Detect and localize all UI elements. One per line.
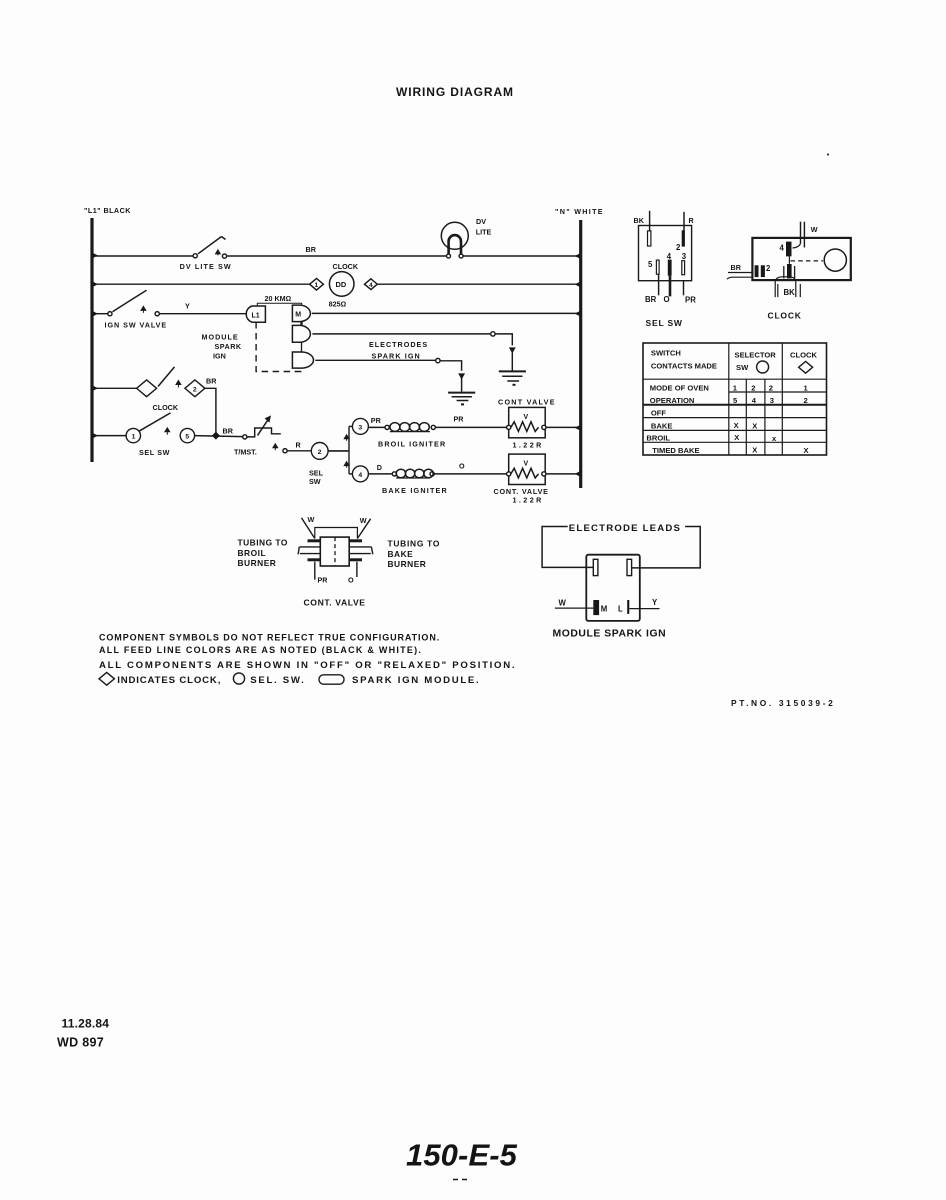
- notes: [99, 633, 516, 686]
- svg-text:SEL SW: SEL SW: [646, 318, 683, 328]
- label SEL SW below contact 2: [309, 469, 324, 487]
- svg-text:BURNER: BURNER: [388, 559, 427, 569]
- svg-text:1: 1: [132, 434, 136, 441]
- dashed module boundary: [256, 322, 301, 372]
- sel sw blade: [139, 413, 171, 435]
- svg-text:BAKE: BAKE: [388, 549, 414, 559]
- note circle symbol: [233, 673, 244, 684]
- svg-text:Y: Y: [185, 302, 190, 311]
- svg-text:LITE: LITE: [476, 228, 492, 237]
- bake igniter coil: [368, 469, 448, 495]
- sel sw contact 1: [126, 428, 140, 442]
- fork arrow up (bake): [344, 462, 349, 468]
- svg-text:W: W: [559, 599, 567, 608]
- svg-text:Y: Y: [652, 598, 658, 607]
- cont valve 2: [494, 454, 549, 504]
- svg-text:1: 1: [804, 384, 809, 393]
- svg-text:IGN SW VALVE: IGN SW VALVE: [105, 321, 168, 330]
- svg-text:INDICATES CLOCK,: INDICATES CLOCK,: [117, 675, 221, 686]
- svg-text:2: 2: [766, 264, 771, 273]
- wire row4 left: [92, 387, 137, 389]
- electrode pin right: [627, 559, 632, 575]
- svg-text:PT.NO. 315039-2: PT.NO. 315039-2: [731, 698, 835, 708]
- junction dot: [212, 432, 220, 440]
- svg-text:4: 4: [752, 396, 757, 405]
- clock dial circle: [824, 249, 846, 271]
- switch DV LITE SW: [180, 237, 232, 272]
- svg-text:2: 2: [318, 449, 322, 456]
- wire electrode 2: [315, 358, 464, 391]
- wire row1 right: [463, 255, 581, 257]
- svg-text:M: M: [295, 312, 301, 319]
- sel sw contact 2: [311, 443, 328, 460]
- svg-text:BROIL IGNITER: BROIL IGNITER: [378, 440, 446, 449]
- dashed link to dial: [791, 260, 824, 262]
- fork arrow up (broil): [344, 435, 349, 441]
- svg-text:L1: L1: [252, 313, 260, 320]
- fork vertical: [348, 426, 350, 474]
- svg-text:X: X: [752, 446, 757, 455]
- svg-text:X: X: [734, 421, 739, 430]
- valve body: [320, 537, 349, 566]
- svg-text:TIMED BAKE: TIMED BAKE: [652, 446, 699, 455]
- cont valve 1: [498, 398, 556, 450]
- svg-text:W: W: [811, 225, 818, 234]
- svg-text:20 KMΩ: 20 KMΩ: [265, 294, 292, 303]
- pipe right: [349, 547, 373, 554]
- svg-text:BR: BR: [223, 427, 234, 436]
- wire M to N bus: [312, 312, 581, 314]
- wire row1 left: [92, 255, 193, 257]
- svg-text:O: O: [664, 295, 670, 304]
- wire to cont valve 2: [434, 473, 506, 475]
- svg-text:MODULE: MODULE: [202, 333, 239, 342]
- wire BR: [658, 274, 660, 295]
- svg-text:BROIL: BROIL: [238, 548, 267, 558]
- table column lines: [728, 343, 730, 455]
- svg-text:825Ω: 825Ω: [329, 300, 347, 309]
- svg-text:PR: PR: [454, 415, 465, 424]
- wire valve2 to bus: [546, 473, 581, 475]
- svg-text:T/MST.: T/MST.: [234, 448, 257, 457]
- svg-text:SWITCH: SWITCH: [651, 349, 681, 358]
- svg-text:W: W: [308, 515, 315, 524]
- wire Y module: [630, 608, 660, 610]
- svg-text:4: 4: [369, 282, 373, 289]
- clock contact diamond 2: [185, 380, 205, 397]
- svg-text:BROIL: BROIL: [646, 434, 670, 443]
- svg-text:CONT VALVE: CONT VALVE: [498, 398, 556, 407]
- wire 5 to junction: [195, 436, 243, 437]
- thermostat TMST: [234, 416, 281, 456]
- scan speck: [827, 153, 829, 155]
- terminal diamond 1: [310, 278, 324, 290]
- module pin M: [292, 305, 310, 322]
- module spark ign connector: [553, 555, 667, 640]
- svg-text:X: X: [734, 433, 739, 442]
- svg-text:SEL. SW.: SEL. SW.: [250, 675, 305, 686]
- svg-text:TUBING TO: TUBING TO: [388, 539, 441, 549]
- svg-text:11.28.84: 11.28.84: [62, 1017, 110, 1031]
- wire row5 left: [92, 435, 126, 437]
- svg-text:OFF: OFF: [651, 409, 667, 418]
- svg-text:3: 3: [358, 424, 362, 431]
- bus N white: [555, 207, 604, 488]
- wire row2 left: [92, 283, 310, 285]
- wire row1 middle: [227, 255, 447, 257]
- svg-text:D: D: [377, 463, 382, 472]
- svg-text:WD 897: WD 897: [57, 1036, 104, 1050]
- wire diamond2 down to row5: [205, 388, 216, 435]
- svg-text:SW: SW: [309, 477, 321, 486]
- svg-text:X: X: [804, 446, 809, 455]
- svg-text:DV: DV: [476, 217, 486, 226]
- svg-text:5: 5: [733, 396, 738, 405]
- svg-text:x: x: [772, 434, 777, 443]
- svg-text:BR: BR: [206, 377, 217, 386]
- note diamond symbol: [99, 672, 114, 685]
- svg-text:SW: SW: [736, 363, 749, 372]
- svg-text:M: M: [601, 605, 608, 614]
- flange bottom right: [349, 558, 362, 561]
- svg-text:1: 1: [315, 282, 319, 289]
- svg-text:BK: BK: [784, 288, 796, 297]
- note module symbol: [319, 675, 344, 684]
- pin 1 clock: [787, 264, 792, 278]
- electrode pin left: [593, 559, 598, 575]
- svg-text:SELECTOR: SELECTOR: [735, 351, 777, 360]
- svg-text:MODULE SPARK IGN: MODULE SPARK IGN: [553, 629, 667, 640]
- wire Y to L1 connector: [159, 313, 246, 315]
- svg-text:150-E-5: 150-E-5: [406, 1138, 518, 1173]
- connector L1: [246, 306, 265, 322]
- flange top left: [308, 539, 321, 542]
- svg-text:BR: BR: [645, 295, 657, 304]
- svg-text:ALL FEED LINE COLORS ARE AS NO: ALL FEED LINE COLORS ARE AS NOTED (BLACK…: [99, 645, 422, 655]
- table row lines: [643, 378, 827, 380]
- flange top right: [349, 539, 362, 542]
- svg-text:SEL SW: SEL SW: [139, 448, 170, 457]
- flange bottom left: [308, 558, 321, 561]
- label ELECTRODES SPARK IGN: [369, 340, 428, 361]
- pin 2: [682, 230, 685, 246]
- svg-text:O: O: [459, 462, 465, 471]
- svg-text:3: 3: [682, 252, 687, 261]
- handwritten 150-E-5: [406, 1138, 518, 1180]
- svg-text:4: 4: [780, 244, 785, 253]
- wire row2 right: [377, 283, 580, 285]
- module pin 2 (blank): [292, 325, 310, 342]
- svg-text:L: L: [618, 605, 623, 614]
- svg-text:BURNER: BURNER: [238, 558, 277, 568]
- svg-text:4: 4: [358, 472, 362, 479]
- svg-text:V: V: [524, 414, 529, 421]
- pin M: [593, 600, 599, 615]
- wire to cont valve 1: [435, 426, 506, 428]
- plug BK: [775, 277, 796, 297]
- svg-text:R: R: [296, 441, 302, 450]
- connector CLOCK: [727, 222, 851, 321]
- svg-text:SPARK: SPARK: [215, 342, 242, 351]
- sel sw contact 3: [349, 418, 368, 434]
- wire PR: [683, 281, 685, 296]
- ground left: [448, 393, 475, 405]
- svg-text:2: 2: [676, 243, 681, 252]
- junction dots on L1 bus: [92, 253, 98, 439]
- pin BK: [648, 231, 651, 246]
- svg-text:W: W: [360, 516, 367, 525]
- sel sw contact 4: [349, 466, 368, 482]
- svg-text:ELECTRODES: ELECTRODES: [369, 340, 428, 349]
- label 20 KMohm with bracket: [257, 294, 301, 306]
- svg-text:ALL COMPONENTS ARE SHOWN IN "O: ALL COMPONENTS ARE SHOWN IN "OFF" OR "RE…: [99, 660, 516, 671]
- wire valve1 to bus: [546, 426, 581, 428]
- stem PR: [314, 562, 316, 580]
- svg-text:5: 5: [648, 260, 653, 269]
- lamp DV LITE: [441, 217, 491, 258]
- broil igniter coil: [368, 423, 446, 449]
- svg-text:TUBING TO: TUBING TO: [238, 538, 288, 548]
- svg-text:PR: PR: [318, 576, 329, 585]
- svg-text:3: 3: [770, 396, 774, 405]
- label TUBING TO BAKE BURNER: [388, 539, 441, 570]
- stub pin2 to pin3: [301, 342, 303, 352]
- svg-text:CONT. VALVE: CONT. VALVE: [304, 598, 366, 608]
- actuator arrow after thermostat: [273, 444, 278, 451]
- svg-text:CLOCK: CLOCK: [153, 403, 179, 412]
- svg-text:1.22R: 1.22R: [513, 496, 544, 505]
- table switch contacts: [643, 343, 827, 455]
- svg-text:1.22R: 1.22R: [513, 441, 544, 450]
- svg-text:CONTACTS MADE: CONTACTS MADE: [651, 362, 717, 371]
- switch IGN SW VALVE: [92, 290, 167, 329]
- svg-text:R: R: [689, 216, 695, 225]
- svg-text:X: X: [752, 422, 757, 431]
- svg-text:CLOCK: CLOCK: [790, 351, 818, 360]
- svg-text:PR: PR: [685, 296, 696, 305]
- ground right: [499, 371, 526, 384]
- top bracket: [315, 528, 358, 539]
- wire R to contact 2: [287, 450, 311, 452]
- clock contact diamond: [137, 380, 157, 397]
- svg-text:"N" WHITE: "N" WHITE: [555, 207, 604, 216]
- connector SEL SW: [634, 211, 697, 328]
- wire O: [669, 276, 672, 297]
- svg-text:V: V: [524, 461, 529, 468]
- svg-text:SPARK IGN: SPARK IGN: [372, 352, 421, 361]
- svg-text:2: 2: [193, 386, 197, 393]
- electrode leads bracket: [542, 523, 700, 568]
- svg-text:DV LITE SW: DV LITE SW: [180, 262, 232, 271]
- svg-text:WIRING DIAGRAM: WIRING DIAGRAM: [396, 85, 514, 99]
- svg-text:2: 2: [769, 384, 773, 393]
- svg-text:2: 2: [751, 384, 755, 393]
- svg-text:4: 4: [667, 252, 672, 261]
- svg-text:BR: BR: [731, 263, 742, 272]
- svg-text:BAKE IGNITER: BAKE IGNITER: [382, 486, 448, 495]
- terminal diamond 4: [365, 279, 378, 290]
- svg-text:IGN: IGN: [213, 352, 226, 361]
- svg-text:DD: DD: [336, 280, 347, 289]
- clock motor DD 825ohm: [329, 262, 359, 309]
- svg-text:BK: BK: [634, 216, 645, 225]
- svg-text:PR: PR: [371, 416, 382, 425]
- bus L1 black: [84, 206, 131, 462]
- wire electrode 1: [312, 332, 514, 371]
- svg-text:COMPONENT SYMBOLS DO NOT REFLE: COMPONENT SYMBOLS DO NOT REFLECT TRUE CO…: [99, 633, 440, 643]
- stem O: [356, 562, 358, 577]
- svg-text:5: 5: [185, 434, 189, 441]
- svg-text:MODE OF OVEN: MODE OF OVEN: [650, 384, 709, 393]
- sel sw contact 5: [180, 428, 194, 442]
- svg-text:ELECTRODE LEADS: ELECTRODE LEADS: [569, 523, 681, 534]
- svg-text:BAKE: BAKE: [651, 421, 673, 430]
- svg-text:2: 2: [804, 396, 808, 405]
- svg-text:1: 1: [733, 384, 738, 393]
- wire contact2 to fork: [328, 450, 349, 452]
- terminal circle R: [283, 449, 287, 453]
- label TUBING TO BROIL BURNER: [238, 538, 288, 569]
- svg-text:O: O: [348, 576, 354, 585]
- pipe left: [298, 547, 320, 554]
- module pin 3 (blank): [292, 352, 313, 368]
- svg-text:CLOCK: CLOCK: [768, 311, 802, 321]
- svg-text:SPARK IGN MODULE.: SPARK IGN MODULE.: [352, 675, 480, 686]
- svg-text:"L1" BLACK: "L1" BLACK: [84, 206, 131, 215]
- clock switch blade: [158, 367, 181, 388]
- svg-text:OPERATION: OPERATION: [650, 396, 695, 405]
- svg-text:BR: BR: [306, 245, 317, 254]
- module spark ign label: [202, 333, 242, 361]
- svg-text:CLOCK: CLOCK: [333, 262, 359, 271]
- junction dots on N bus: [575, 253, 581, 477]
- cont valve tubing assembly: [238, 515, 441, 608]
- stub M to pin2: [300, 322, 302, 326]
